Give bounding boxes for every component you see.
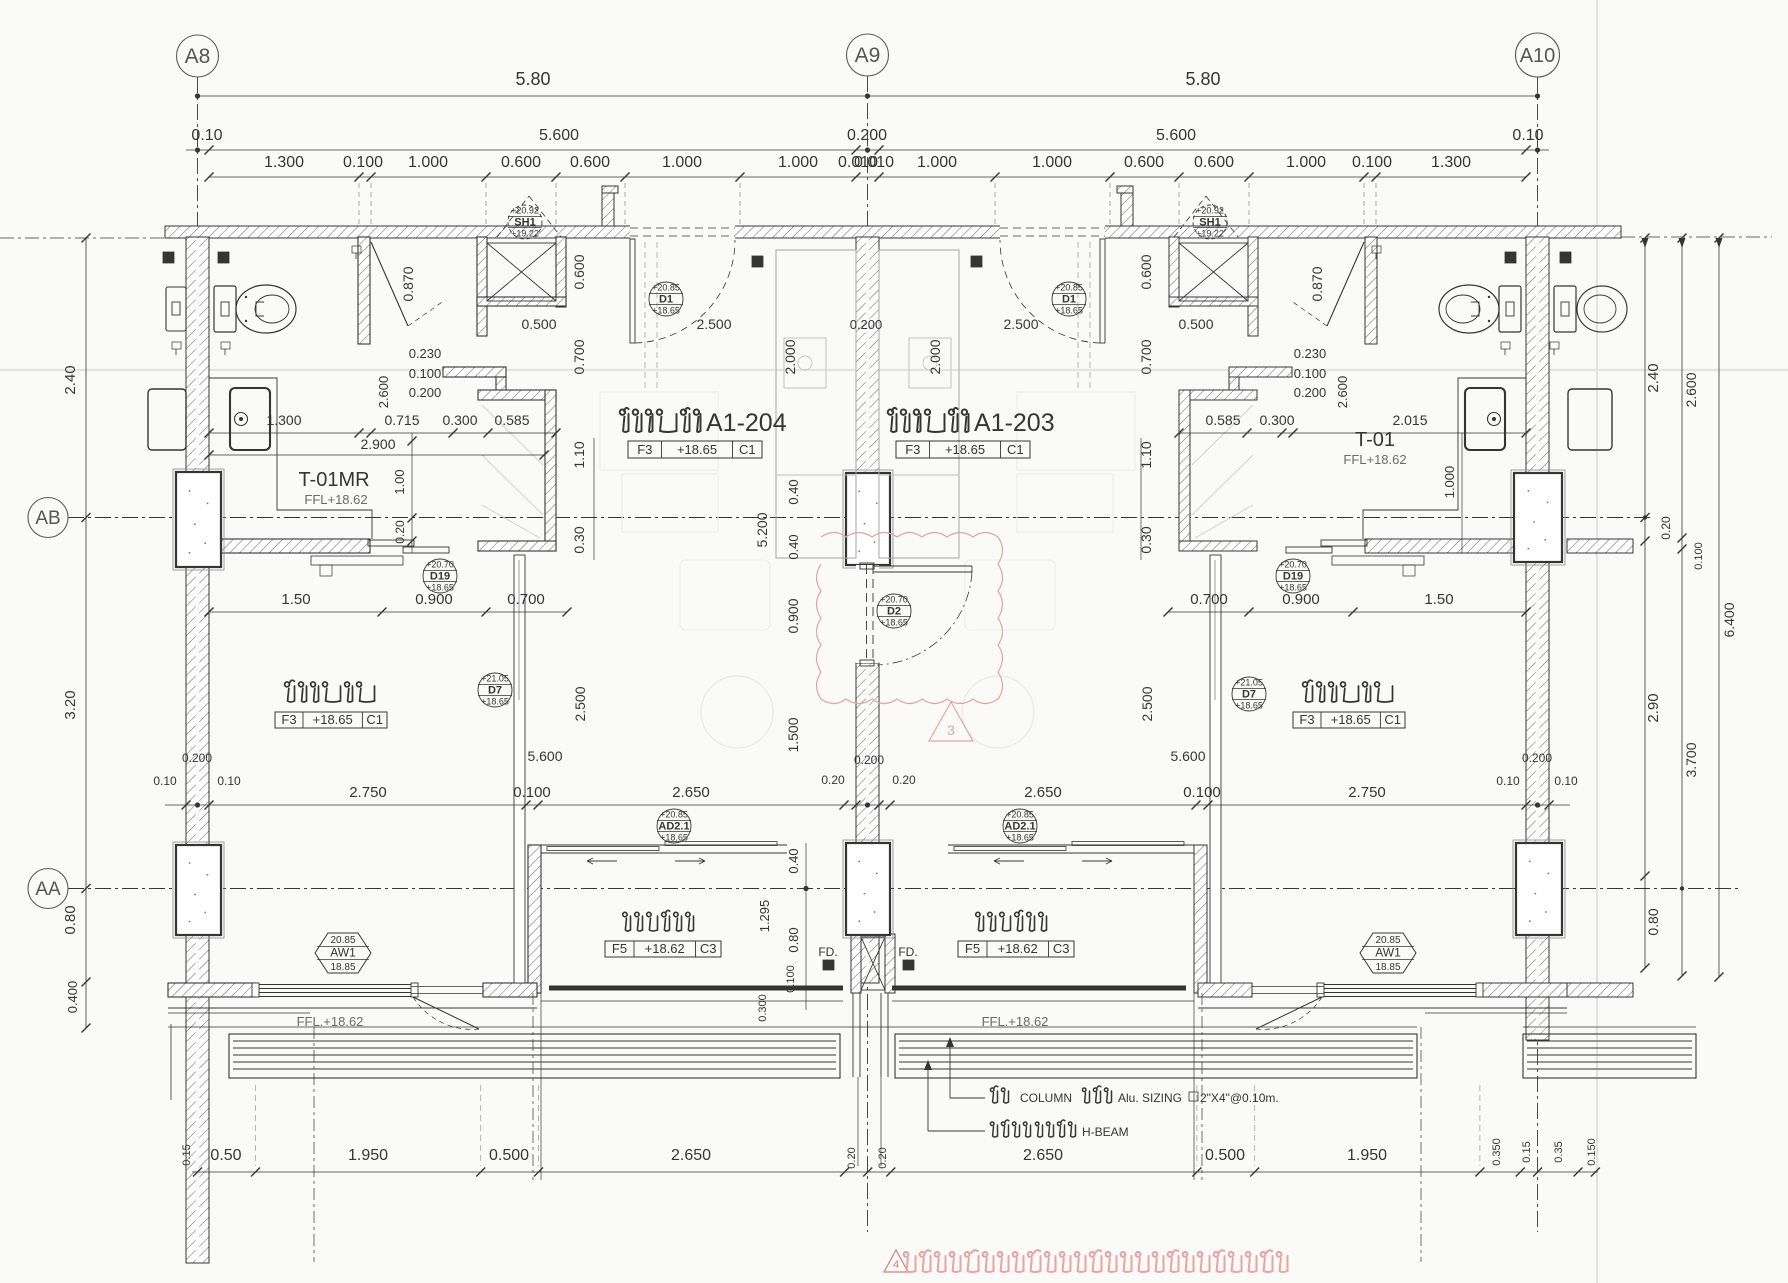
column A8/AB [173,469,224,570]
vertical mini dims near closet left [411,433,413,553]
svg-text:2.750: 2.750 [349,784,387,801]
column A8/AA [173,842,224,938]
A9 shaft lines continuing below [852,993,854,1077]
room label unit A1-204 (Thai) [620,408,701,432]
svg-text:1.000: 1.000 [1286,154,1326,171]
svg-text:FFL+18.62: FFL+18.62 [1343,452,1406,467]
svg-text:0.100: 0.100 [1352,154,1392,171]
door D1 opening right (white gap) [1000,225,1105,240]
svg-text:0.400: 0.400 [65,981,80,1014]
svg-text:0.870: 0.870 [400,266,416,301]
svg-text:0.700: 0.700 [571,339,587,374]
bathroom door leaf left [371,242,408,326]
dim row 0.585/0.300/2.015 right [1179,432,1526,434]
ghost furniture right unit [1017,392,1135,470]
svg-text:5.80: 5.80 [1185,69,1220,89]
SH1 dashed roof line right [1174,196,1206,237]
svg-text:0.600: 0.600 [1138,254,1154,289]
toilet neighbor right [1554,286,1576,332]
svg-text:1.10: 1.10 [1138,441,1154,468]
svg-text:0.700: 0.700 [1138,339,1154,374]
svg-text:1.50: 1.50 [1424,591,1453,608]
door D2 leaf and swing (center) [866,565,868,663]
shower bottom wall (right unit) [1169,297,1258,306]
dim row 0.700/0.900/1.50 right [1168,611,1526,613]
svg-text:0.715: 0.715 [384,412,419,428]
svg-text:FFL+18.62: FFL+18.62 [304,492,367,507]
closet step wall a (right unit) [1229,367,1292,377]
svg-text:Alu. SIZING: Alu. SIZING [1118,1091,1182,1105]
red revision triangle bottom [884,1250,908,1272]
ghost table circle left unit [701,676,773,748]
svg-text:D2: D2 [887,606,901,618]
closet right wall (right unit) [1179,390,1190,551]
A9 party wall lower [856,663,879,983]
door D1 leaf+swing left [630,238,634,240]
svg-text:+19.22: +19.22 [511,229,539,239]
svg-text:5.600: 5.600 [1170,748,1205,764]
bottom dim row [192,1171,1598,1173]
svg-text:D19: D19 [430,571,450,583]
right dim dots [1680,886,1684,890]
note leader H-beam [927,1082,929,1131]
svg-text:1.50: 1.50 [281,591,310,608]
dimension row 0.10 5.600 0.200 5.600 0.10 [186,149,1549,151]
svg-text:20.85: 20.85 [1375,935,1400,946]
svg-text:0.10: 0.10 [1512,127,1543,144]
svg-text:0.100: 0.100 [1693,542,1705,570]
door tag D7 right [1232,677,1266,711]
extension line right of closet left [593,438,595,560]
closet top wall [478,390,556,400]
svg-text:1.295: 1.295 [757,900,772,933]
svg-text:+20.85: +20.85 [652,283,680,293]
svg-text:+18.65: +18.65 [1006,833,1034,843]
svg-text:1.300: 1.300 [264,154,304,171]
left dimension column 2.40 3.20 0.80 0.400 [85,238,87,1028]
svg-text:A10: A10 [1520,45,1556,67]
dash-dot stub left of top wall [0,237,166,239]
wood deck band left [229,1034,840,1078]
svg-text:0.20: 0.20 [877,1147,889,1168]
svg-text:0.200: 0.200 [1522,751,1552,765]
svg-text:+18.65: +18.65 [1055,306,1083,316]
svg-text:2.000: 2.000 [782,339,798,374]
svg-text:0.200: 0.200 [182,751,212,765]
bedroom bottom wall west [168,983,255,997]
svg-text:+20.70: +20.70 [426,560,454,570]
A9 shaft side walls [851,934,861,993]
svg-text:0.900: 0.900 [415,591,453,608]
svg-text:0.500: 0.500 [489,1147,529,1164]
svg-text:+18.62: +18.62 [998,941,1038,956]
svg-text:+21.05: +21.05 [1235,678,1263,688]
closet step wall a [443,367,506,377]
shower tag SH1 left [508,205,542,239]
svg-text:2.900: 2.900 [360,436,395,452]
svg-text:+20.92: +20.92 [1196,206,1224,216]
svg-text:+18.65: +18.65 [1279,583,1307,593]
svg-text:AW1: AW1 [1375,946,1401,960]
wall fixtures (small squares) top area [163,252,174,263]
sink unit A1-204 [230,388,270,450]
bedroom divider wall (double line) right [1210,555,1221,983]
svg-text:0.700: 0.700 [1190,591,1228,608]
svg-text:C3: C3 [1053,941,1070,956]
svg-text:T-01: T-01 [1355,429,1395,451]
svg-text:+18.65: +18.65 [1331,712,1371,727]
svg-text:0.150: 0.150 [1586,1138,1598,1166]
svg-text:1.00: 1.00 [392,469,407,494]
bathroom corner wall [358,237,370,344]
svg-text:0.100: 0.100 [513,784,551,801]
bathroom taps [172,342,181,349]
svg-text:+18.65: +18.65 [677,442,717,457]
center vertical dim line at A9 [805,843,807,1010]
toilet neighbor left (tank only) [166,287,186,331]
svg-text:A9: A9 [855,44,881,67]
ghost furniture left unit [600,392,718,470]
balcony side wall (right unit) [1194,845,1207,993]
wood deck band far right [1523,1034,1696,1078]
svg-text:+18.65: +18.65 [945,442,985,457]
column A10/AA [1513,840,1565,938]
svg-text:0.20: 0.20 [393,520,407,544]
door tag D7 left [478,673,512,707]
floor tag balcony right [958,941,1074,957]
A9 party wall upper [856,237,879,565]
svg-text:0.10: 0.10 [191,127,222,144]
svg-text:+18.65: +18.65 [481,697,509,707]
shower left wall [477,237,487,336]
grid bubble AA [28,869,68,909]
svg-text:3.700: 3.700 [1683,742,1699,777]
svg-text:+20.70: +20.70 [880,595,908,605]
svg-text:0.200: 0.200 [409,385,442,400]
dim row mid 2.750/0.100/2.650 full width [165,804,1570,806]
neighbor bathroom wall right of A10 [1567,539,1633,553]
svg-text:C1: C1 [739,442,756,457]
svg-text:F5: F5 [965,941,980,956]
closet top wall (right unit) [1179,390,1257,400]
svg-text:0.900: 0.900 [1282,591,1320,608]
A9 shaft box with X brace [861,937,885,990]
svg-text:+20.92: +20.92 [511,206,539,216]
svg-text:+18.65: +18.65 [426,583,454,593]
grid line A8 (dash-dot vertical) [197,77,199,1218]
svg-text:1.000: 1.000 [1032,154,1072,171]
extension line right of closet right [1140,438,1142,560]
bedroom divider wall (double line) left [514,555,525,983]
svg-text:C3: C3 [700,941,717,956]
svg-text:0.80: 0.80 [786,927,801,952]
shower tag SH1 right [1193,205,1227,239]
deck left end post [170,1024,172,1100]
window tag AW1 left [315,933,371,973]
grid bubble A10 [1516,33,1560,77]
bedroom bottom wall east [483,983,537,997]
neighbor bottom wall right of A10 [1567,983,1633,997]
dim row 1.50/0.900/0.700 left [209,611,567,613]
svg-text:1.500: 1.500 [785,717,801,752]
sink neighbor right [1568,389,1612,450]
svg-text:0.230: 0.230 [409,346,442,361]
svg-text:0.30: 0.30 [1138,526,1154,553]
balcony side wall [528,845,541,993]
svg-text:COLUMN: COLUMN [1020,1091,1072,1105]
closet step wall b (right unit) [1229,377,1239,391]
top exterior wall [165,226,1621,238]
svg-text:1.000: 1.000 [1442,466,1457,499]
svg-text:2.500: 2.500 [1003,316,1038,332]
shower right wall (right unit) [1169,237,1179,307]
svg-text:FD.: FD. [898,945,917,959]
svg-text:1.000: 1.000 [662,154,702,171]
vertical mini dims near closet right [1461,433,1463,553]
window tag AW1 right [1360,933,1416,973]
stub wall above top wall left [602,186,614,226]
floor tag unit A1-203 [896,441,1030,458]
svg-text:3.20: 3.20 [62,690,79,719]
balcony floor line right [892,1000,1194,1002]
svg-text:D7: D7 [488,685,502,697]
svg-text:+18.65: +18.65 [660,833,688,843]
svg-text:A1-204: A1-204 [706,409,787,437]
floor tag bedroom right [1293,712,1405,728]
dimension row 5.80 / 5.80 [198,95,1538,97]
room label unit A1-203 (Thai) [888,408,969,432]
svg-text:2.750: 2.750 [1348,784,1386,801]
svg-text:0.350: 0.350 [1491,1138,1503,1166]
door tag AD2.1 right [1003,809,1037,843]
svg-text:0.100: 0.100 [785,965,797,993]
svg-text:1.10: 1.10 [571,441,587,468]
svg-text:3: 3 [947,722,955,738]
svg-text:+18.65: +18.65 [313,712,353,727]
svg-text:+18.62: +18.62 [645,941,685,956]
door tag D19 left [423,559,457,593]
terrace back edge line [168,1026,1417,1028]
svg-text:F3: F3 [281,712,296,727]
svg-text:0.10: 0.10 [1496,774,1520,788]
right dim arrowheads at top [1642,238,1649,248]
balcony railing left (thick) [549,986,843,991]
svg-text:1.950: 1.950 [1347,1147,1387,1164]
shelf below bathroom wall left [311,556,403,565]
svg-text:18.85: 18.85 [330,962,355,973]
svg-text:2.000: 2.000 [927,339,943,374]
svg-text:D1: D1 [659,294,673,306]
column A10/AB [1511,470,1565,565]
svg-text:6.400: 6.400 [1721,602,1737,637]
svg-text:0.600: 0.600 [1194,154,1234,171]
window AW1 left [259,984,411,986]
svg-text:F3: F3 [637,442,652,457]
svg-text:0.40: 0.40 [786,848,801,873]
closet bottom wall (right unit) [1179,541,1257,551]
svg-text:5.80: 5.80 [515,69,550,89]
svg-text:SH1: SH1 [514,217,535,229]
svg-text:H-BEAM: H-BEAM [1082,1125,1129,1139]
column A9/AB [843,470,893,568]
terrace swing door leaf left [413,997,479,1029]
dash-dot stub right of top wall [1621,236,1772,238]
balcony sliding door AD2.1 right [948,844,1194,846]
svg-text:20.85: 20.85 [330,935,355,946]
svg-text:2.600: 2.600 [1683,372,1699,407]
svg-text:0.900: 0.900 [785,598,801,633]
balcony floor line left [541,1000,843,1002]
window AW1 right [1324,984,1476,986]
grid line A9 (dash-dot vertical) [867,76,869,1232]
svg-text:0.20: 0.20 [821,773,845,787]
svg-text:D7: D7 [1242,689,1256,701]
balcony railing right (thick) [892,986,1186,991]
svg-text:2.650: 2.650 [672,784,710,801]
svg-text:AA: AA [35,879,61,900]
wood deck band center-right [895,1034,1417,1078]
room label bedroom left (Thai) [285,680,375,702]
svg-text:+21.05: +21.05 [481,674,509,684]
bedroom bottom wall west (right unit) [1480,983,1567,997]
shower bottom wall [477,297,566,306]
door tag D19 right [1276,559,1310,593]
shelf below bathroom wall right [1332,556,1424,565]
svg-text:C1: C1 [1007,442,1024,457]
svg-text:0.35: 0.35 [1553,1141,1565,1162]
svg-text:0.15: 0.15 [1521,1141,1533,1162]
door D19 sliding leaves right [1321,540,1367,546]
note text H-beam [990,1120,1030,1137]
closet right wall [545,390,556,551]
dim row 2.900/0.715/0.300/0.585 left [209,432,556,434]
floor tag unit A1-204 [628,441,762,458]
door D2 opening gap in A9 wall [856,565,879,663]
svg-text:0.10: 0.10 [153,774,177,788]
svg-text:AD2.1: AD2.1 [1004,821,1035,833]
bathroom south wall (right unit) [1365,539,1526,553]
svg-text:18.85: 18.85 [1375,962,1400,973]
entry threshold dashed lines right [1077,242,1079,392]
svg-text:1.000: 1.000 [917,154,957,171]
svg-text:2.600: 2.600 [1335,376,1350,409]
svg-text:T-01MR: T-01MR [298,469,369,491]
svg-text:0.600: 0.600 [1124,154,1164,171]
grid bubble A9 [847,34,889,76]
svg-text:5.200: 5.200 [754,512,770,547]
door D19 sliding leaves left [368,540,414,546]
svg-text:0.500: 0.500 [1205,1147,1245,1164]
door D1 leaf+swing right [1100,239,1105,343]
room label bedroom right (Thai) [1303,680,1393,702]
door D1 opening left (white gap) [630,225,735,240]
svg-text:0.50: 0.50 [210,1147,241,1164]
svg-text:0.500: 0.500 [1178,316,1213,332]
balcony sliding door AD2.1 left [541,844,787,846]
svg-text:0.40: 0.40 [786,534,801,559]
svg-text:2.650: 2.650 [1024,784,1062,801]
shower left wall (right unit) [1248,237,1258,336]
svg-text:A1-203: A1-203 [974,409,1055,437]
closet interior ghost hatch right [1192,405,1253,465]
svg-text:2.600: 2.600 [376,376,391,409]
scan artifact: faint horizontal band [0,369,1788,371]
svg-text:0.200: 0.200 [1294,385,1327,400]
svg-text:0.20: 0.20 [846,1147,858,1168]
svg-text:0.300: 0.300 [442,412,477,428]
column A9/AA [843,840,893,938]
svg-text:F3: F3 [905,442,920,457]
svg-text:0.585: 0.585 [494,412,529,428]
svg-text:5.600: 5.600 [1156,127,1196,144]
svg-text:+20.85: +20.85 [1055,283,1083,293]
svg-text:2.90: 2.90 [1645,693,1662,722]
svg-text:0.10: 0.10 [1554,774,1578,788]
door tag D1 right [1052,282,1086,316]
kitchen counter left unit (ghost) [776,250,856,558]
svg-text:+18.65: +18.65 [1235,701,1263,711]
svg-text:5.600: 5.600 [527,748,562,764]
svg-text:D1: D1 [1062,294,1076,306]
entry threshold dashed lines left [644,242,646,392]
svg-text:2.015: 2.015 [1392,412,1427,428]
room label balcony right (Thai) [976,910,1047,931]
red revision note text (Thai) [904,1250,1288,1272]
svg-text:AW1: AW1 [330,946,356,960]
terrace door threshold right [1252,986,1324,988]
svg-text:0.100: 0.100 [409,366,442,381]
svg-text:0.80: 0.80 [62,905,79,934]
svg-text:0.010: 0.010 [854,154,894,171]
grid line A10 (dash-dot vertical) [1537,77,1539,1232]
toilet unit A1-204 [214,286,236,332]
red revision cloud around door D2 [817,533,1003,704]
svg-text:0.100: 0.100 [1183,784,1221,801]
bottom dim extension lines [255,1085,257,1166]
room label balcony left (Thai) [623,910,694,931]
svg-text:0.20: 0.20 [892,773,916,787]
svg-text:A8: A8 [185,45,211,68]
ghost table circle right unit [962,676,1034,748]
svg-text:AB: AB [35,508,60,529]
sink neighbor left [148,389,186,450]
svg-text:1.300: 1.300 [266,412,301,428]
toilet unit A1-203 [1499,286,1521,332]
svg-text:0.100: 0.100 [343,154,383,171]
svg-text:+18.65: +18.65 [880,618,908,628]
svg-text:0.100: 0.100 [1294,366,1327,381]
svg-text:0.600: 0.600 [570,154,610,171]
svg-text:1.300: 1.300 [1431,154,1471,171]
svg-text:0.15: 0.15 [181,1144,193,1165]
svg-text:0.600: 0.600 [571,254,587,289]
svg-text:5.600: 5.600 [539,127,579,144]
bathroom door leaf right [1327,242,1364,326]
bathroom floor edge polyline left [209,378,372,539]
A10 structural wall [1526,237,1549,1040]
svg-text:C1: C1 [366,712,383,727]
svg-text:2.650: 2.650 [1023,1147,1063,1164]
svg-text:AD2.1: AD2.1 [658,821,689,833]
svg-text:1.000: 1.000 [778,154,818,171]
svg-text:0.600: 0.600 [501,154,541,171]
bedroom bottom wall east (right unit) [1198,983,1252,997]
bathroom floor edge polyline right [1363,378,1526,539]
svg-text:2.500: 2.500 [572,686,588,721]
terrace edge line left [168,1007,537,1009]
right dimension column 2.40 0.20 2.90 0.80 [1644,238,1646,968]
shower stall with X (left) [487,243,556,301]
